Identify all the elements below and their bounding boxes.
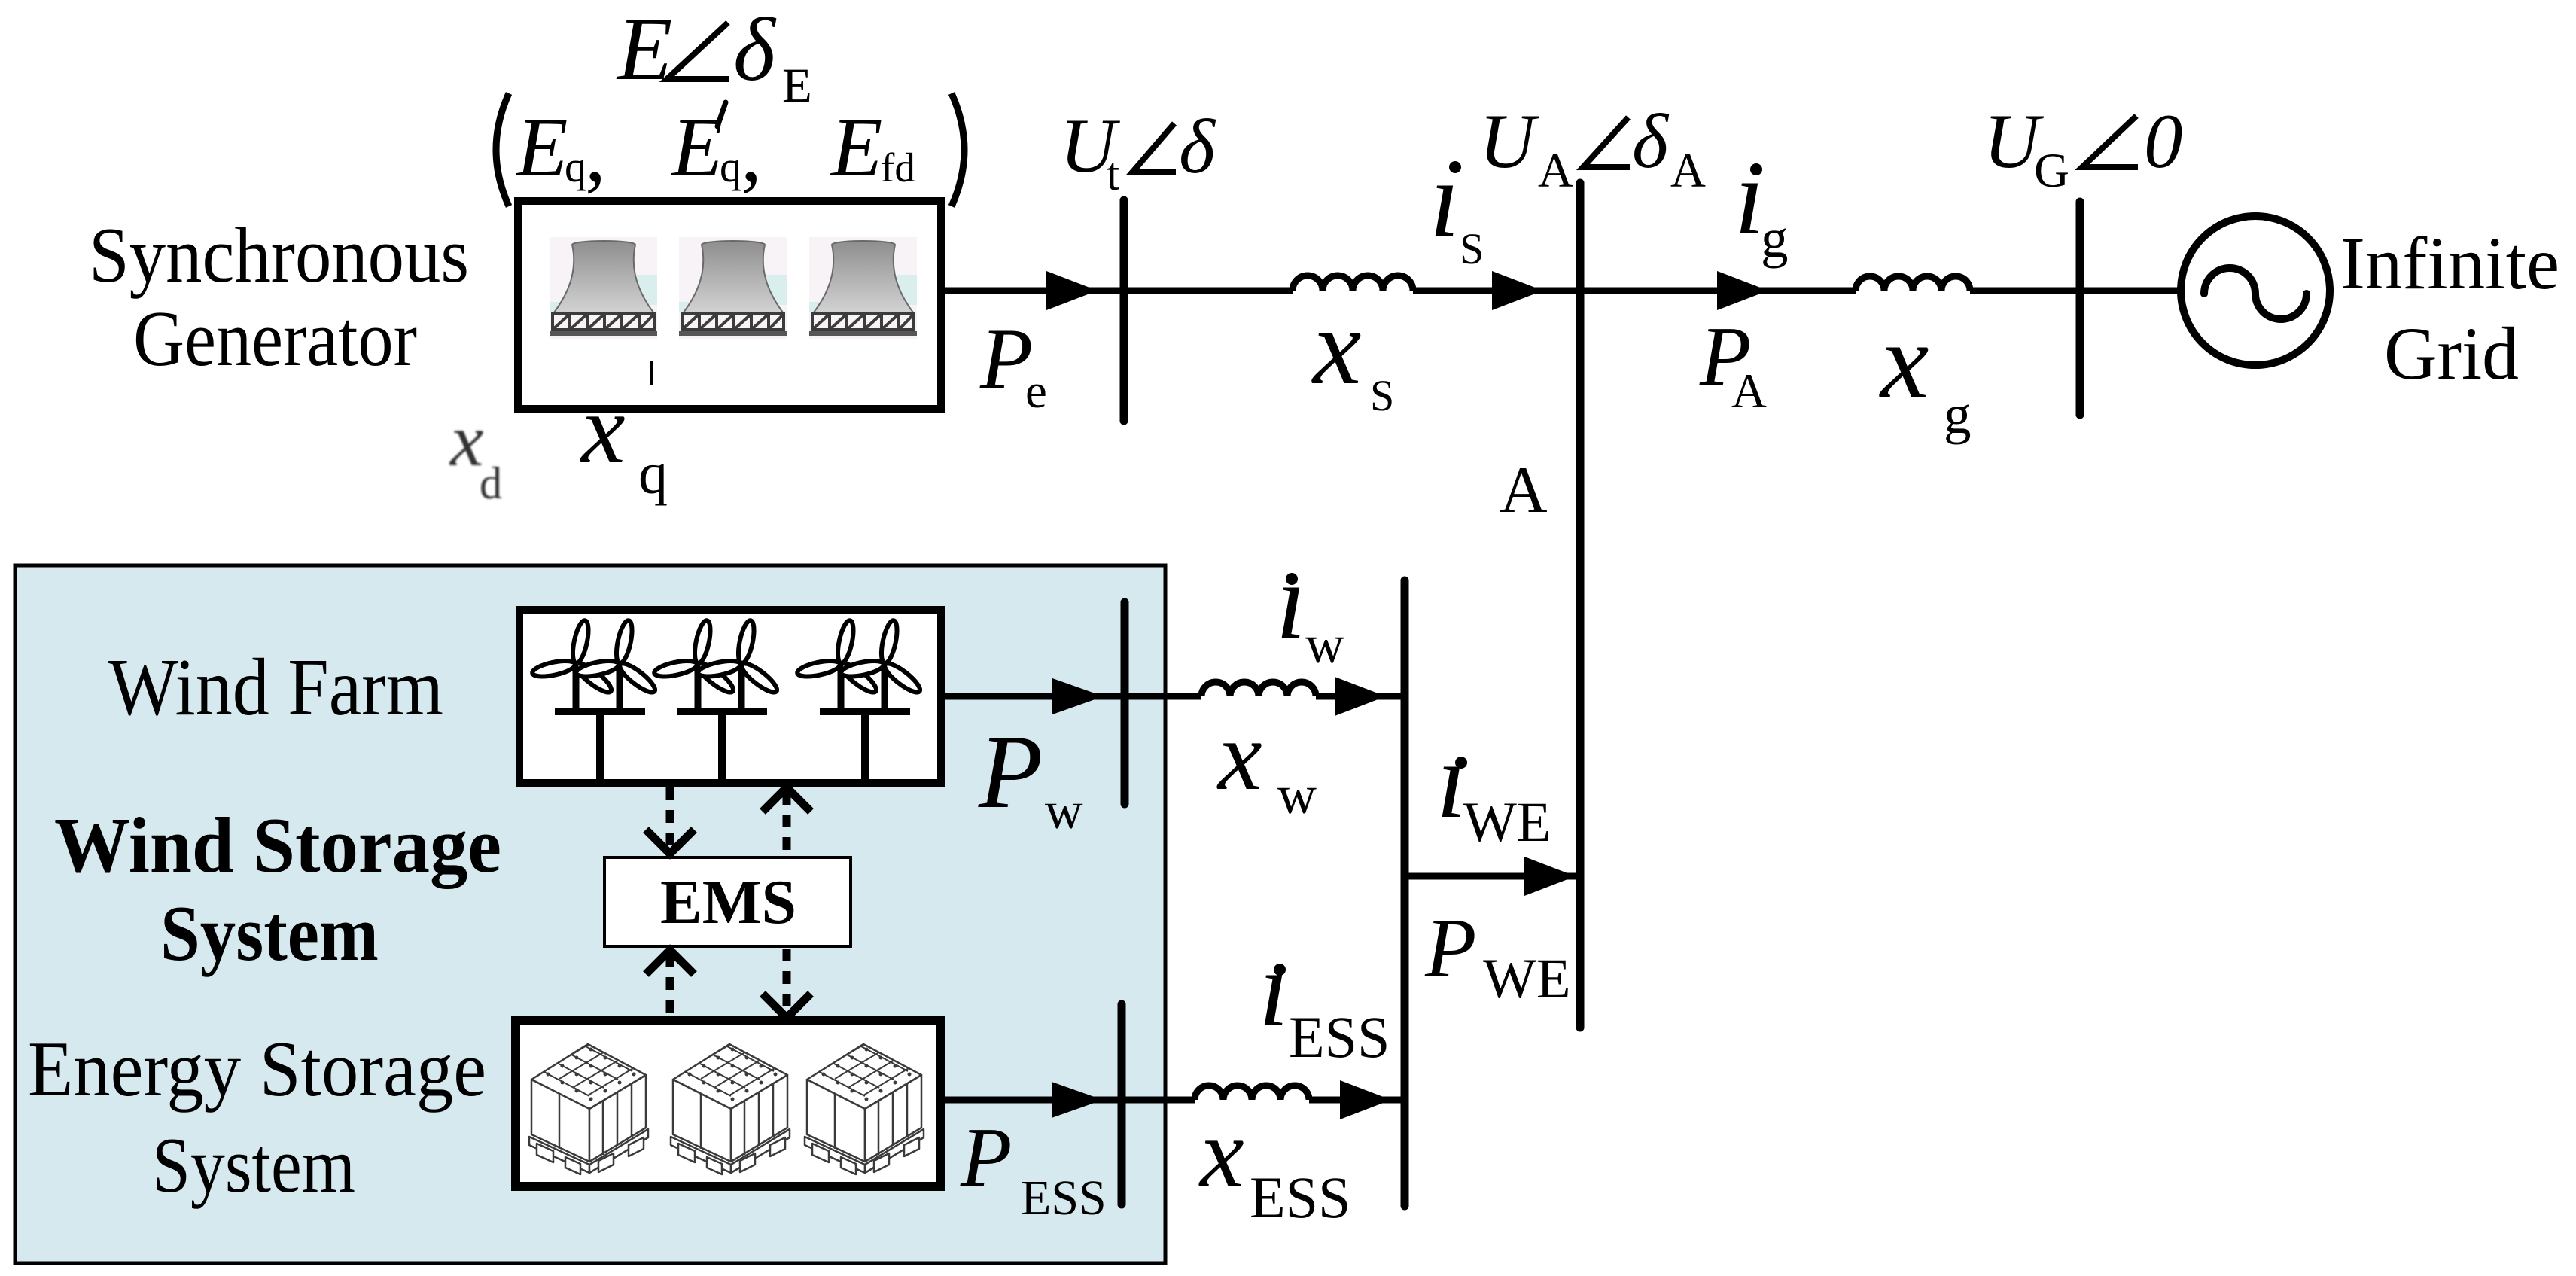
svg-text:ı: ı (1430, 139, 1460, 260)
svg-text:δ: δ (1632, 99, 1670, 184)
svg-text:S: S (1370, 371, 1394, 420)
svg-text:ESS: ESS (1289, 1004, 1390, 1070)
svg-text:t: t (1107, 149, 1119, 200)
svg-text:ESS: ESS (1250, 1165, 1350, 1230)
svg-text:P: P (960, 1111, 1012, 1204)
svg-text:d: d (480, 458, 502, 508)
svg-text:A: A (1670, 144, 1706, 198)
svg-text:Infinite: Infinite (2340, 221, 2559, 305)
svg-text:E: E (670, 101, 723, 194)
svg-text:Energy Storage: Energy Storage (28, 1025, 486, 1113)
svg-text:q: q (720, 142, 741, 191)
svg-text:ı: ı (1436, 720, 1466, 841)
svg-text:A: A (1500, 454, 1548, 527)
svg-text:x: x (449, 398, 483, 482)
svg-text:E: E (616, 0, 672, 99)
svg-text:G: G (2034, 144, 2069, 198)
svg-text:g: g (1944, 384, 1972, 445)
svg-text:P: P (1424, 902, 1476, 995)
svg-text:q: q (565, 142, 586, 191)
svg-text:E: E (515, 101, 568, 194)
svg-text:0: 0 (2144, 99, 2183, 184)
svg-text:E: E (830, 101, 882, 194)
svg-text:System: System (160, 889, 379, 977)
svg-text:g: g (1761, 208, 1789, 269)
svg-text:ı: ı (1259, 929, 1289, 1049)
svg-text:U: U (1479, 99, 1539, 184)
svg-text:δ: δ (733, 0, 777, 99)
svg-text:System: System (152, 1121, 355, 1209)
svg-text:Wind Storage: Wind Storage (54, 801, 501, 889)
svg-text:ı: ı (1276, 541, 1306, 662)
svg-text:Generator: Generator (133, 294, 417, 382)
svg-text:A: A (1731, 364, 1767, 419)
svg-text:Wind Farm: Wind Farm (108, 643, 443, 732)
svg-text:e: e (1025, 364, 1047, 419)
svg-text:x: x (1198, 1098, 1244, 1208)
svg-text:x: x (1879, 301, 1929, 422)
svg-text:S: S (1460, 224, 1484, 273)
svg-text:,: , (585, 106, 606, 199)
svg-text:ESS: ESS (1021, 1171, 1107, 1226)
svg-text:Synchronous: Synchronous (89, 211, 469, 299)
svg-text:A: A (1538, 144, 1573, 198)
svg-text:Grid: Grid (2384, 312, 2519, 395)
svg-text:q: q (638, 440, 668, 506)
svg-text:w: w (1045, 782, 1083, 840)
svg-text:WE: WE (1483, 948, 1571, 1010)
svg-text:WE: WE (1463, 791, 1551, 854)
svg-text:x: x (1311, 287, 1361, 407)
svg-text:fd: fd (881, 145, 915, 190)
svg-text:w: w (1305, 614, 1344, 675)
svg-text:EMS: EMS (660, 867, 796, 937)
svg-text:x: x (1216, 700, 1262, 811)
svg-text:P: P (978, 714, 1043, 830)
svg-text:E: E (782, 59, 812, 113)
svg-text:δ: δ (1179, 104, 1216, 190)
svg-text:,: , (741, 106, 762, 199)
svg-text:x: x (580, 373, 626, 484)
svg-text:w: w (1277, 765, 1317, 825)
